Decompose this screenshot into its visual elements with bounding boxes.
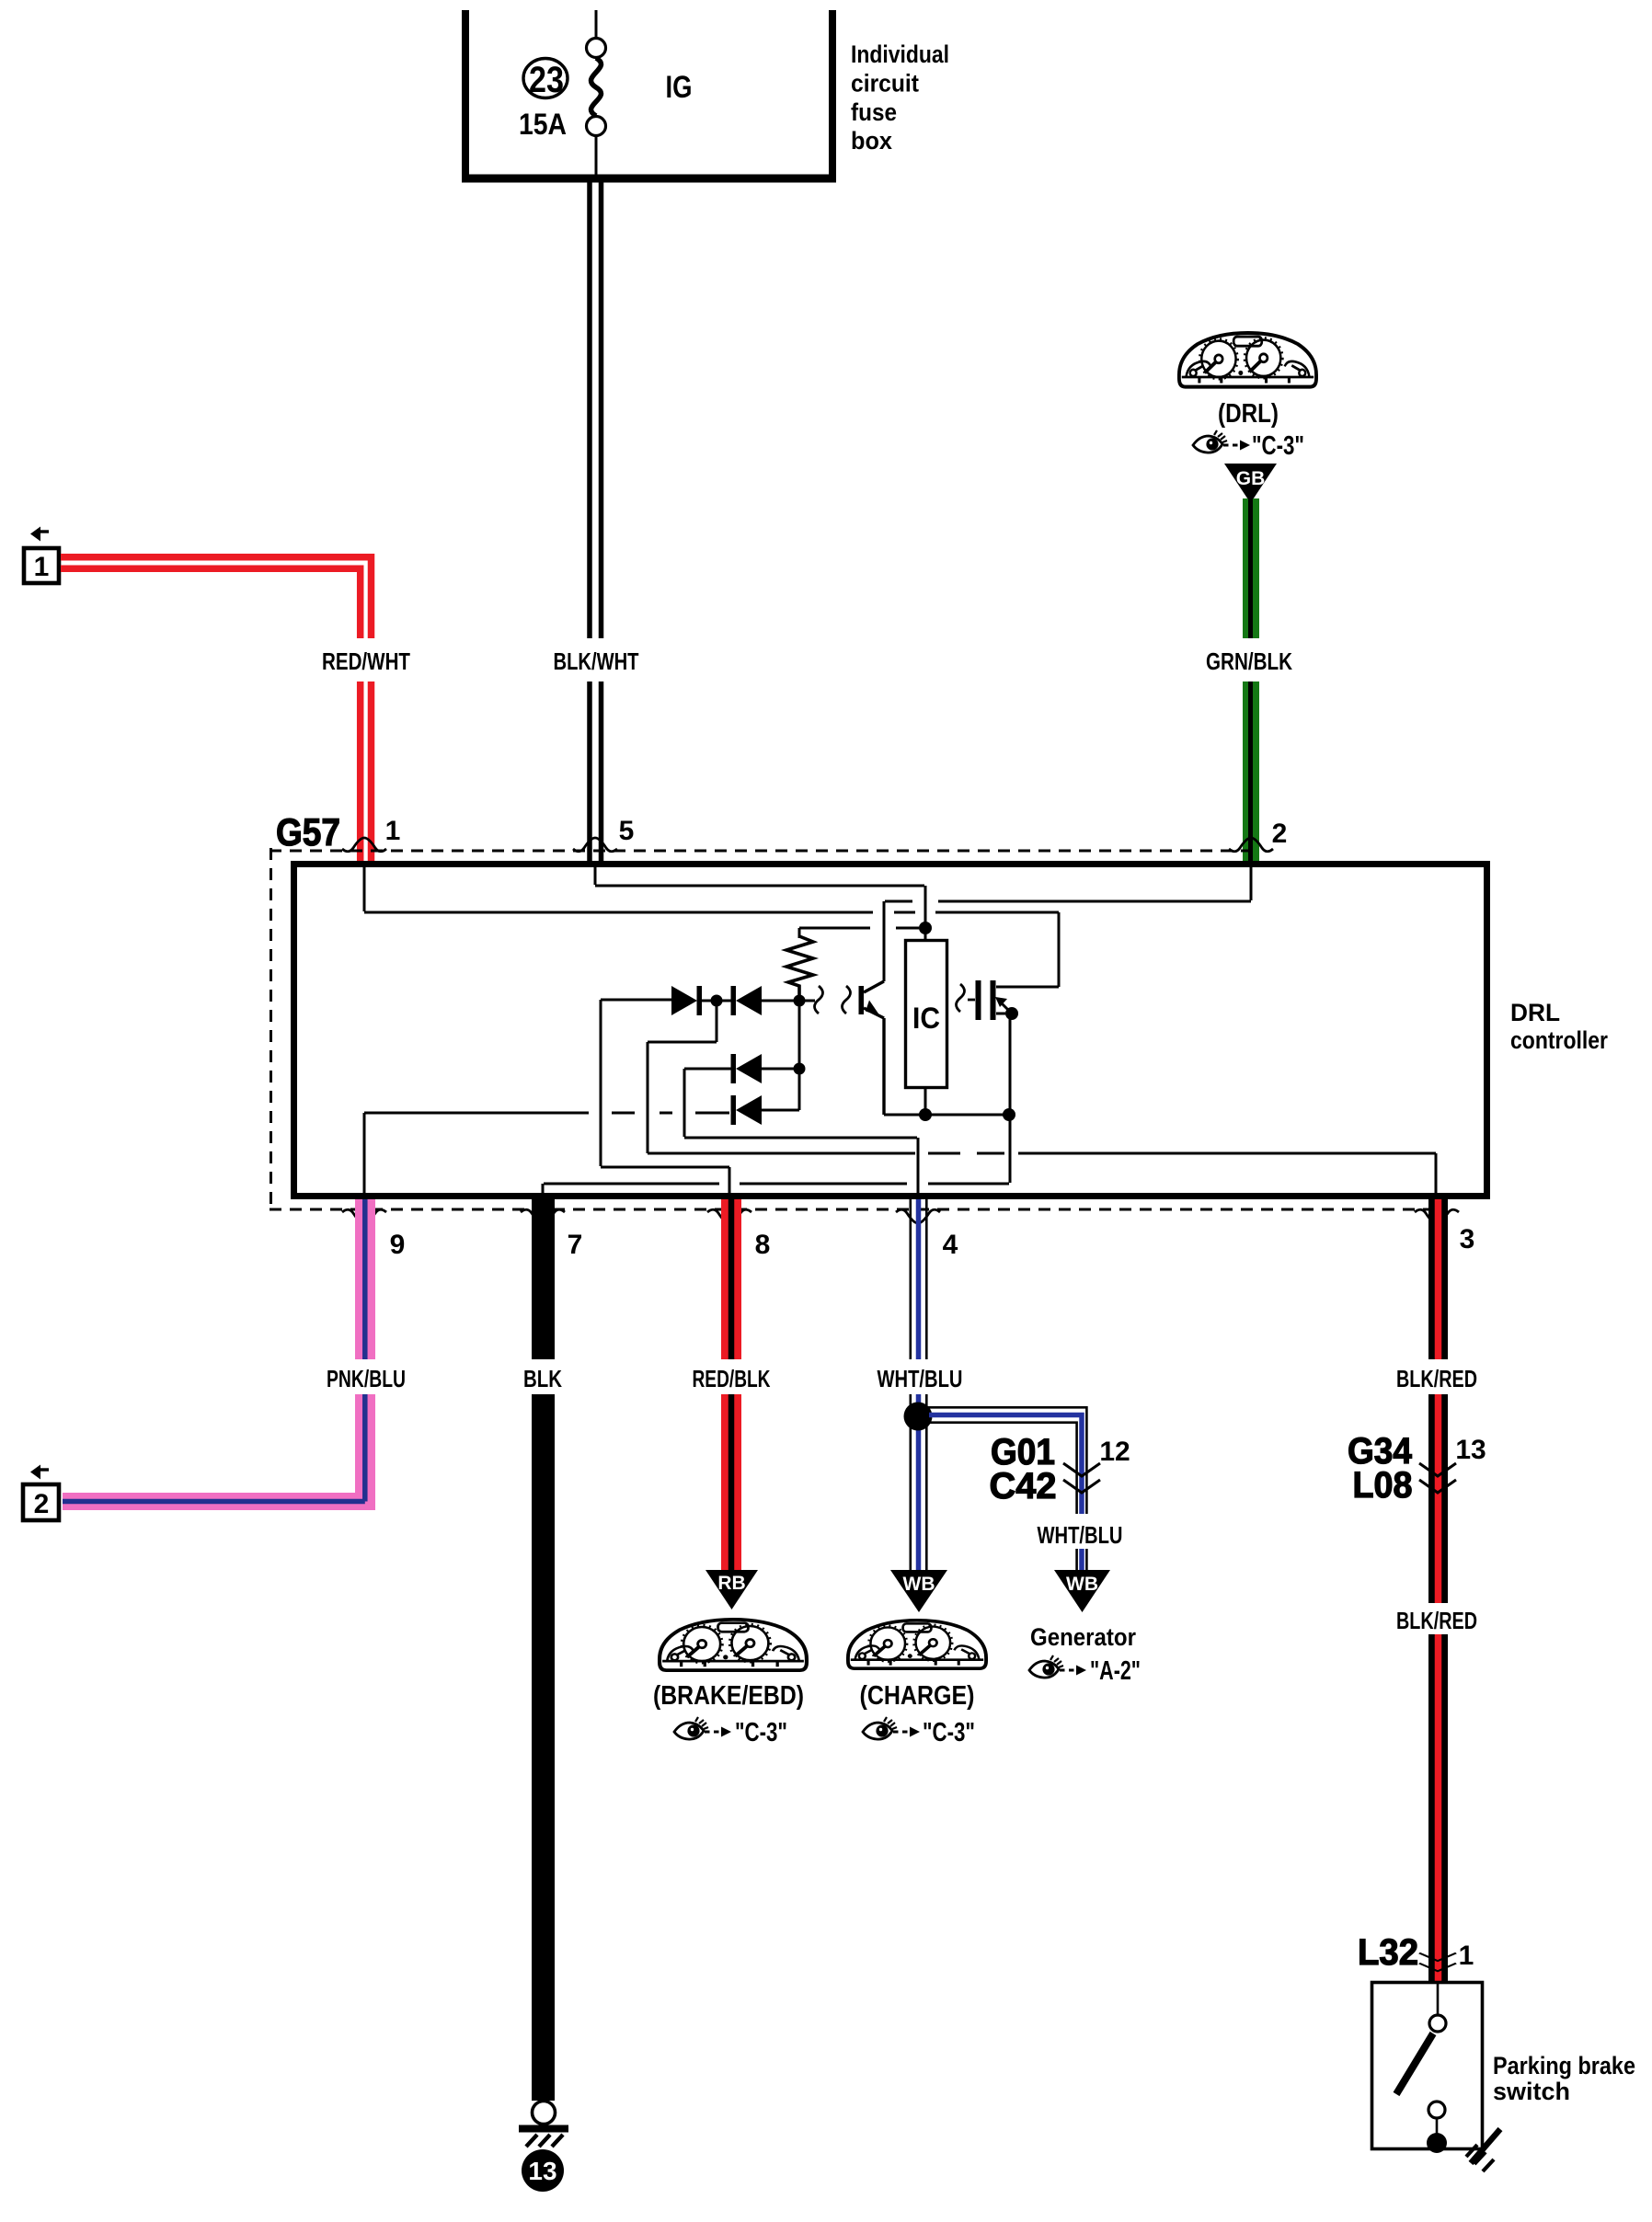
svg-text:(BRAKE/EBD): (BRAKE/EBD) [653, 1681, 804, 1711]
svg-text:BLK/RED: BLK/RED [1396, 1365, 1477, 1392]
wire: D3 cathode lead to pin4 column [684, 1069, 731, 1137]
svg-text:WHT/BLU: WHT/BLU [1038, 1521, 1123, 1549]
svg-text:9: 9 [390, 1230, 406, 1260]
diode D2 [731, 986, 737, 1015]
pin mark 9 (bottom) [342, 1209, 386, 1223]
connector triangle WB (left) [890, 1570, 947, 1612]
svg-text:WB: WB [1066, 1574, 1098, 1595]
pin mark 1 (top) [342, 838, 386, 852]
connector 1 arrow [40, 530, 49, 533]
MOSFET U2 gate lead [968, 999, 975, 1002]
svg-text:(CHARGE): (CHARGE) [860, 1681, 975, 1711]
ground symbol (bottom) [533, 2102, 556, 2125]
wire RED/BLK (pin 8 to RB) [721, 1199, 741, 1572]
connector 2 arrow [40, 1468, 49, 1471]
internal circuit of DRL controller [364, 867, 1436, 1193]
G57 connector dashed boundary bottom [270, 1208, 1437, 1211]
svg-text:1: 1 [385, 816, 401, 846]
svg-text:WHT/BLU: WHT/BLU [878, 1365, 963, 1392]
switch contact (bottom) [1428, 2102, 1445, 2118]
svg-text:L32: L32 [1358, 1932, 1418, 1973]
svg-text:2: 2 [34, 1489, 50, 1519]
MOSFET U2 channel bar [991, 980, 996, 1020]
svg-text:Generator: Generator [1030, 1623, 1136, 1651]
wire: collector riser [883, 901, 886, 981]
individual circuit fuse box outline [462, 10, 836, 178]
svg-text:IC: IC [912, 1002, 940, 1035]
wire: pin8 horizontal [601, 1166, 729, 1169]
switch contact (top) [1429, 2015, 1446, 2032]
pin mark 7 (bottom) [521, 1209, 565, 1223]
svg-text:PNK/BLU: PNK/BLU [327, 1365, 406, 1392]
svg-text:12: 12 [1099, 1437, 1130, 1467]
svg-text:8: 8 [755, 1230, 771, 1260]
svg-text:GB: GB [1236, 468, 1266, 489]
transistor Q1 emitter arrow [866, 1001, 880, 1017]
wire: D1 lead [601, 999, 671, 1002]
wire: junction to D2 lead [722, 1000, 731, 1002]
svg-text:13: 13 [1455, 1435, 1486, 1465]
switch internal lead [1437, 1984, 1440, 2015]
wire: source riser down [1009, 1014, 1012, 1115]
junction dot (IC bottom) [919, 1108, 932, 1121]
wire: pin9 bus [364, 1113, 589, 1193]
svg-text:controller: controller [1510, 1026, 1608, 1054]
wire: pin3 bus (dashed center part) [648, 1152, 1436, 1155]
squiggle break (MOSFET gate) [957, 984, 965, 1012]
connector marks G34/L08 [1419, 1463, 1456, 1493]
eye to A-2 reference (Generator) [1029, 1655, 1063, 1678]
junction dot (source/bus) [1003, 1108, 1015, 1121]
wire: pin2 to collector (hop at x1006) [885, 900, 1251, 903]
MOSFET U2 gate bar [976, 980, 981, 1020]
wire: drain riser [1058, 912, 1061, 987]
svg-text:1: 1 [1459, 1941, 1474, 1971]
connector triangle RB [706, 1570, 758, 1609]
switch lever [1396, 2033, 1433, 2094]
wire: pin3 column [647, 1042, 649, 1153]
squiggle break (base line 2) [843, 986, 851, 1014]
svg-text:fuse: fuse [851, 98, 897, 126]
pin mark 5 (top) [573, 838, 617, 852]
svg-text:"C-3": "C-3" [1252, 431, 1304, 461]
wire: D2 lead [762, 1000, 794, 1002]
wire: pin1 bus to MOSFET drain (hops at x960 and x1006) [364, 911, 1059, 914]
eye to C-3 reference (CHARGE) [863, 1717, 897, 1739]
switch ground dot [1427, 2133, 1447, 2153]
chassis ground (switch) [1471, 2129, 1500, 2163]
MOSFET U2 source lead [996, 1013, 1005, 1015]
wire: dashed link to diode D4 [612, 1112, 729, 1115]
wire RED/WHT (connector 1 to pin 1) [61, 557, 372, 865]
wire BLK/WHT (fuse box to pin 5) [590, 178, 602, 865]
wire: pin3 riser [1435, 1153, 1438, 1193]
junction dot on WHT/BLU [904, 1403, 933, 1431]
wire: pin2 riser [1250, 867, 1253, 900]
diode D4 [731, 1095, 737, 1125]
wire: D1 to junction lead [702, 1000, 711, 1002]
wire BLK/RED (pin 3 to L32) [1428, 1199, 1448, 1981]
svg-text:"C-3": "C-3" [735, 1718, 787, 1747]
wire: D1 anode column [600, 1000, 602, 1166]
parking brake switch box [1372, 1983, 1483, 2149]
svg-text:IG: IG [666, 70, 693, 105]
pin mark 2 (top) [1229, 838, 1273, 852]
svg-text:switch: switch [1493, 2078, 1570, 2105]
wire: pin4 bus [684, 1138, 918, 1193]
wire: D4 lead [762, 1109, 799, 1112]
G57 connector dashed boundary top [270, 850, 1251, 853]
eye to C-3 reference (DRL) [1193, 430, 1227, 452]
svg-text:"C-3": "C-3" [923, 1718, 975, 1747]
svg-text:GRN/BLK: GRN/BLK [1206, 647, 1292, 675]
connector triangle WB (right) [1054, 1570, 1110, 1612]
squiggle break (base line 1) [815, 986, 823, 1014]
svg-text:L08: L08 [1353, 1465, 1413, 1506]
wire: D3 lead [762, 1068, 794, 1071]
wire: IC bottom lead [924, 1089, 927, 1115]
diode D3 [731, 1054, 737, 1083]
fuse number 23 circle [523, 59, 568, 98]
svg-text:Individual: Individual [851, 40, 949, 68]
wire WHT/BLU (pin 4 down) [911, 1199, 927, 1572]
svg-text:5: 5 [619, 816, 635, 846]
wire: diode anode column [798, 1001, 801, 1110]
svg-text:3: 3 [1460, 1224, 1475, 1254]
pin mark 8 (bottom) [707, 1209, 751, 1223]
MOSFET U2 body arrow [1002, 1003, 1009, 1011]
junction dot (pin5/IC top) [919, 922, 932, 934]
svg-text:WB: WB [903, 1574, 935, 1595]
junction dot (D3) [794, 1063, 806, 1075]
wire: pin1 riser [363, 867, 366, 911]
svg-text:RED/BLK: RED/BLK [693, 1365, 771, 1392]
svg-text:BLK: BLK [523, 1365, 562, 1392]
wire BLK (pin 7 to ground) [532, 1199, 555, 2101]
svg-text:Parking brake: Parking brake [1493, 2052, 1635, 2079]
svg-text:BLK/RED: BLK/RED [1396, 1607, 1477, 1634]
DRL controller box [294, 865, 1487, 1197]
ground number 13 [522, 2149, 564, 2192]
wire: base lead [805, 1000, 815, 1002]
eye to C-3 reference (BRAKE/EBD) [674, 1717, 708, 1739]
svg-text:circuit: circuit [851, 70, 919, 97]
svg-text:C42: C42 [990, 1466, 1057, 1506]
transistor Q1 emitter [864, 1008, 884, 1115]
svg-text:2: 2 [1272, 819, 1288, 849]
wire: pin5 to IC top [924, 886, 927, 939]
wire: resistor top horizontal (hop at x960) [799, 928, 919, 938]
svg-text:4: 4 [943, 1230, 958, 1260]
connector marks L32 [1419, 1953, 1456, 1971]
wire WHT/BLU branch to generator [924, 1407, 1086, 1572]
junction dot (D1-D2) [711, 995, 723, 1007]
meter cluster icon (BRAKE/EBD) [660, 1620, 807, 1670]
wire GRN/BLK (GB triangle to pin 2) [1243, 498, 1260, 865]
switch lower lead [1436, 2118, 1439, 2136]
IC box [906, 941, 947, 1088]
svg-text:RB: RB [717, 1573, 745, 1594]
fuse 23 symbol [587, 10, 606, 178]
svg-text:G57: G57 [276, 810, 340, 853]
wire: D1-D2 junction drop [648, 1001, 717, 1042]
svg-text:23: 23 [529, 60, 564, 100]
diode D1 [671, 986, 697, 1015]
svg-text:"A-2": "A-2" [1090, 1656, 1141, 1686]
wire: pin8 riser [728, 1167, 731, 1193]
wire: pin7 riser and bus (hops at x793 and x998) [543, 1115, 1010, 1193]
svg-text:15A: 15A [519, 108, 567, 141]
svg-text:DRL: DRL [1510, 999, 1560, 1026]
svg-text:(DRL): (DRL) [1218, 399, 1279, 429]
connector triangle GB [1224, 464, 1277, 503]
junction dot (MOSFET source) [1005, 1007, 1018, 1020]
svg-text:1: 1 [34, 552, 50, 582]
wire: drain lead [996, 986, 1059, 989]
transistor Q1 collector [864, 981, 884, 992]
svg-text:BLK/WHT: BLK/WHT [554, 647, 639, 675]
connector marks G01/C42 [1063, 1463, 1100, 1493]
meter cluster icon (DRL) [1179, 333, 1316, 387]
svg-text:13: 13 [528, 2157, 556, 2185]
connector 2 box [23, 1484, 59, 1520]
connector 1 box [24, 548, 59, 583]
pin mark 3 (bottom) [1415, 1209, 1459, 1223]
pin mark 4 (bottom) [896, 1209, 940, 1223]
meter cluster icon (CHARGE) [848, 1621, 986, 1668]
junction dot (resistor/base) [794, 995, 806, 1007]
svg-text:box: box [851, 127, 892, 155]
wire: bottom bus (emitter/IC/source) [884, 1114, 1009, 1117]
resistor (internal) [786, 936, 813, 1001]
G57 connector dashed boundary left [270, 848, 272, 1210]
svg-text:RED/WHT: RED/WHT [322, 647, 410, 675]
transistor Q1 base bar [859, 986, 865, 1014]
svg-text:7: 7 [568, 1230, 583, 1260]
wire PNK/BLU (pin 9 to connector 2) [63, 1199, 375, 1510]
wire: pin5 riser [594, 867, 597, 885]
wire: pin5 horizontal [595, 885, 924, 888]
